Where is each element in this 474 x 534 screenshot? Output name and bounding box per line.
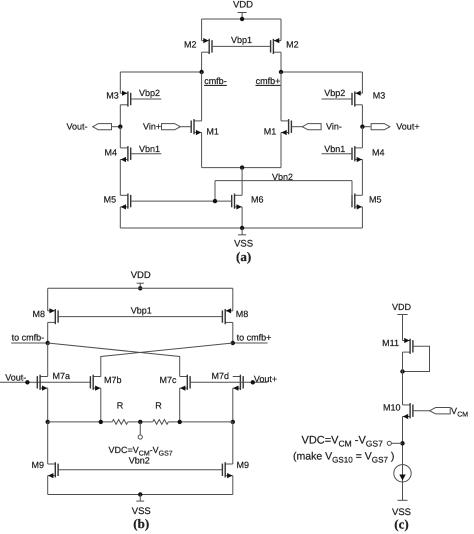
transistor M7c — [180, 375, 190, 391]
label Vin+ — [143, 122, 161, 132]
wire VDD to M11 — [402, 315, 404, 341]
label M6 — [251, 195, 264, 205]
junction VSS rail (b) — [138, 492, 142, 496]
label M3 (left) — [106, 91, 119, 101]
svg-text:R: R — [155, 401, 162, 411]
label M7a — [53, 371, 71, 381]
label VSS (a) — [234, 239, 253, 250]
junction cmfb+ — [279, 70, 283, 74]
label Vbn1 (right) — [324, 144, 345, 154]
label M9 (left) — [31, 460, 44, 470]
svg-text:M7a: M7a — [53, 371, 71, 381]
wire M3R source — [361, 72, 363, 93]
wire M4L source — [119, 160, 121, 196]
svg-text:V: V — [451, 406, 457, 416]
wire resistor rail right — [168, 421, 233, 423]
transistor M7b — [90, 375, 100, 391]
svg-text:M9: M9 — [237, 460, 250, 470]
label VCM — [451, 406, 468, 418]
junction cmfb- — [199, 70, 203, 74]
label M2 (left) — [184, 40, 197, 50]
wire M10 source — [402, 417, 404, 465]
VSS rail (b) — [48, 494, 233, 496]
label Vout+ (a) — [396, 122, 419, 132]
label VDC=VCM-VGS7 (b) — [109, 445, 173, 458]
label Vout- (b) — [5, 373, 26, 383]
label Vbp2 (left) — [139, 88, 160, 98]
svg-text:Vbp2: Vbp2 — [139, 88, 160, 98]
terminal VDC (c) — [387, 441, 391, 445]
junction Vout- (b) — [25, 380, 29, 384]
transistor M3 (right) — [352, 91, 362, 107]
label M7c — [159, 375, 177, 385]
wire M7c source — [179, 388, 181, 422]
svg-text:M4: M4 — [104, 147, 117, 157]
junction Vout- node — [118, 125, 122, 129]
svg-text:M7b: M7b — [104, 375, 122, 385]
label cmfb- — [204, 76, 227, 86]
label Vbn1 (left) — [139, 144, 160, 154]
wire M5L source — [119, 207, 121, 228]
junction VSS rail (a) — [240, 226, 244, 230]
junction M7d source rail — [231, 420, 235, 424]
svg-text:(b): (b) — [133, 516, 149, 531]
wire Vbn2 net (a) — [131, 181, 352, 202]
VSS rail (a) — [120, 227, 362, 229]
svg-text:M8: M8 — [236, 309, 249, 319]
wire M4L gate stub Vbn1 — [131, 153, 162, 155]
wire Vout- gate line — [0, 381, 90, 383]
svg-text:Vbp1: Vbp1 — [231, 35, 252, 45]
svg-text:Vout+: Vout+ — [254, 374, 277, 384]
wire resistor rail left — [48, 421, 113, 423]
wire M3L drain — [119, 105, 121, 127]
wire M2R source — [280, 19, 282, 41]
transistor M5 (left) — [120, 194, 130, 210]
junction to cmfb- — [46, 341, 50, 345]
VDD rail (b) — [48, 287, 233, 289]
label Vbp2 (right) — [324, 88, 345, 98]
svg-text:Vin+: Vin+ — [143, 122, 161, 132]
junction M11 loop — [400, 369, 404, 373]
transistor M2 (right) — [271, 38, 281, 54]
wire I to VSS — [402, 482, 404, 500]
wire cross diagonal right — [101, 343, 233, 377]
wire M5R source — [361, 207, 363, 228]
junction tail node — [240, 165, 244, 169]
power VDD (a) — [233, 0, 253, 19]
wire Vout+ gate line — [190, 381, 267, 383]
svg-text:(c): (c) — [394, 516, 408, 531]
label M1 (left) — [206, 127, 219, 137]
terminal VDC (b) — [138, 435, 142, 439]
wire M9R drain — [232, 422, 234, 464]
current source I — [394, 465, 411, 482]
label M2 (right) — [286, 40, 299, 50]
label VSS (b) — [132, 506, 151, 517]
label M4 (left) — [104, 147, 117, 157]
svg-text:M1: M1 — [206, 127, 219, 137]
svg-text:Vbn1: Vbn1 — [324, 144, 345, 154]
power VDD (b) — [131, 270, 151, 288]
svg-text:Vin-: Vin- — [326, 122, 342, 132]
wire R centre — [128, 421, 153, 423]
label M1 (right) — [264, 127, 277, 137]
transistor M6 — [232, 194, 242, 210]
wire M8L drain — [47, 322, 49, 343]
resistor R (right) — [153, 420, 169, 425]
svg-text:M5: M5 — [104, 195, 117, 205]
label VDC=VCM-VGS7 (c) — [302, 434, 384, 448]
svg-text:to cmfb+: to cmfb+ — [237, 333, 272, 343]
svg-text:M3: M3 — [373, 91, 386, 101]
transistor M1 (right) — [281, 119, 291, 135]
svg-text:Vout-: Vout- — [5, 373, 26, 383]
svg-text:M9: M9 — [31, 460, 44, 470]
svg-text:Vbn1: Vbn1 — [139, 144, 160, 154]
transistor M8 (left) — [48, 308, 58, 324]
label Vbp1 (a) — [231, 35, 252, 45]
svg-text:M1: M1 — [264, 127, 277, 137]
transistor M5 (right) — [352, 194, 362, 210]
label M5 (left) — [104, 195, 117, 205]
port Vin+ — [162, 124, 192, 130]
svg-text:Vbn2: Vbn2 — [129, 455, 150, 465]
wire M2L source — [201, 19, 203, 41]
junction to cmfb+ — [231, 341, 235, 345]
wire Vbn2 gates (b) — [58, 469, 222, 471]
junction VDD rail — [240, 17, 244, 21]
wire M3R gate stub Vbp2 — [322, 98, 353, 100]
wire M3L gate stub Vbp2 — [131, 98, 162, 100]
wire M8R source — [232, 288, 234, 311]
label (a) — [236, 249, 251, 264]
wire M9L source — [47, 476, 49, 495]
svg-text:Vout-: Vout- — [67, 122, 88, 132]
svg-text:VDC=VCM -VGS7: VDC=VCM -VGS7 — [302, 434, 384, 448]
wire M7a source — [47, 388, 49, 422]
wire M2L drain — [201, 52, 203, 72]
svg-text:M5: M5 — [369, 195, 382, 205]
wire M4R source — [361, 160, 363, 196]
junction VDC (c) — [400, 441, 404, 445]
transistor M4 (right) — [352, 146, 362, 162]
label M9 (right) — [237, 460, 250, 470]
label (c) — [394, 516, 408, 531]
wire cross diagonal left — [48, 343, 180, 377]
svg-text:Vbp1: Vbp1 — [131, 306, 152, 316]
wire M11 diode loop — [403, 346, 430, 371]
svg-text:M10: M10 — [383, 403, 401, 413]
wire to cmfb+ stub — [233, 342, 268, 344]
port Vin- — [291, 124, 321, 130]
wire M4R gate stub Vbn1 — [322, 153, 353, 155]
transistor M1 (left) — [191, 119, 201, 135]
wire M7d source — [232, 388, 234, 422]
ground VSS (b) — [136, 495, 144, 502]
svg-text:Vbn2: Vbn2 — [272, 172, 293, 182]
transistor M2 (left) — [202, 38, 212, 54]
transistor M9 (right) — [222, 462, 232, 478]
wire M7a drain — [47, 343, 49, 377]
svg-text:M6: M6 — [251, 195, 264, 205]
transistor M3 (left) — [120, 91, 130, 107]
port VCM — [413, 408, 450, 414]
svg-text:VSS: VSS — [132, 506, 151, 517]
label R (left) — [117, 401, 124, 411]
port Vout- (a) — [93, 124, 121, 130]
svg-text:Vout+: Vout+ — [396, 122, 419, 132]
label Vout+ (b) — [254, 374, 277, 384]
junction VDD rail (b) — [138, 286, 142, 290]
wire cmfb+ to M1R drain — [280, 72, 282, 121]
junction M7a source rail — [46, 420, 50, 424]
wire VDC stub (c) — [392, 442, 403, 444]
junction Vout+ (b) — [251, 380, 255, 384]
wire tail to M6 drain — [241, 168, 243, 196]
svg-text:M4: M4 — [372, 147, 385, 157]
svg-text:(make VGS10 = VGS7 ): (make VGS10 = VGS7 ) — [293, 450, 394, 464]
svg-text:cmfb+: cmfb+ — [256, 76, 281, 86]
svg-text:to cmfb-: to cmfb- — [12, 333, 45, 343]
node cmfb- wire — [120, 71, 201, 73]
ground VSS (c) — [398, 499, 408, 501]
svg-text:R: R — [117, 401, 124, 411]
VDD rail (a) — [202, 18, 281, 20]
svg-text:cmfb-: cmfb- — [204, 76, 227, 86]
wire M11 drain to M10 — [402, 352, 404, 405]
svg-text:VSS: VSS — [234, 239, 253, 250]
junction M7b source — [99, 420, 103, 424]
transistor M7d — [233, 375, 243, 391]
wire M9R source — [232, 476, 234, 495]
svg-text:M11: M11 — [382, 338, 399, 348]
wire M4R drain — [361, 127, 363, 148]
junction R centre — [138, 420, 142, 424]
transistor M9 (left) — [48, 462, 58, 478]
svg-text:M8: M8 — [32, 309, 45, 319]
junction Vbn2 (a) — [213, 199, 217, 203]
transistor M8 (right) — [222, 308, 232, 324]
svg-text:M7d: M7d — [211, 371, 229, 381]
label cmfb+ — [256, 76, 281, 86]
wire M2R drain — [280, 52, 282, 72]
label (b) — [133, 516, 149, 531]
transistor M10 — [403, 403, 413, 419]
label make VGS10=VGS7 — [293, 450, 394, 464]
label M11 — [382, 338, 399, 348]
label to cmfb+ — [237, 333, 272, 343]
label Vin- — [326, 122, 342, 132]
label M7b — [104, 375, 122, 385]
wire M9L drain — [47, 422, 49, 464]
resistor R (left) — [112, 420, 128, 425]
wire M4L drain — [119, 127, 121, 148]
label VSS (c) — [392, 507, 411, 518]
ground VSS (a) — [238, 228, 246, 235]
svg-text:CM: CM — [457, 411, 468, 418]
label Vout- (a) — [67, 122, 88, 132]
junction Vout+ node — [360, 125, 364, 129]
label R (right) — [155, 401, 162, 411]
power VDD (c) — [392, 302, 412, 319]
label Vbp1 (b) — [131, 306, 152, 316]
label M8 (left) — [32, 309, 45, 319]
wire Vbp1 gates (b) — [58, 316, 222, 318]
wire M8L source — [47, 288, 49, 311]
wire M6 source — [241, 207, 243, 228]
wire Vbp1 gates — [212, 45, 271, 47]
svg-text:M2: M2 — [184, 40, 197, 50]
svg-text:(a): (a) — [236, 249, 251, 264]
svg-text:VDD: VDD — [392, 302, 412, 312]
label M4 (right) — [372, 147, 385, 157]
label M10 — [383, 403, 401, 413]
svg-text:M7c: M7c — [159, 375, 177, 385]
label M8 (right) — [236, 309, 249, 319]
svg-text:VDD: VDD — [233, 0, 253, 11]
wire M7b source — [100, 388, 102, 422]
label Vbn2 (a) — [272, 172, 293, 182]
label to cmfb- — [12, 333, 45, 343]
svg-text:VDD: VDD — [131, 270, 151, 281]
wire M3R drain — [361, 105, 363, 127]
svg-text:M2: M2 — [286, 40, 299, 50]
wire M3L source — [119, 72, 121, 93]
wire cmfb- to M1L drain — [201, 72, 203, 121]
label Vbn2 (b) — [129, 455, 150, 465]
label M3 (right) — [373, 91, 386, 101]
wire VDC tap — [139, 422, 141, 435]
wire M1 sources join — [202, 133, 281, 168]
node cmfb+ wire — [281, 71, 362, 73]
port Vout+ (a) — [362, 124, 390, 130]
transistor M4 (left) — [120, 146, 130, 162]
label M5 (right) — [369, 195, 382, 205]
junction M7c source — [178, 420, 182, 424]
wire to cmfb- stub — [11, 342, 48, 344]
label M7d — [211, 371, 229, 381]
wire M8R drain — [232, 322, 234, 343]
transistor M11 — [403, 338, 413, 354]
svg-text:M3: M3 — [106, 91, 119, 101]
transistor M7a — [37, 375, 47, 391]
svg-text:Vbp2: Vbp2 — [324, 88, 345, 98]
